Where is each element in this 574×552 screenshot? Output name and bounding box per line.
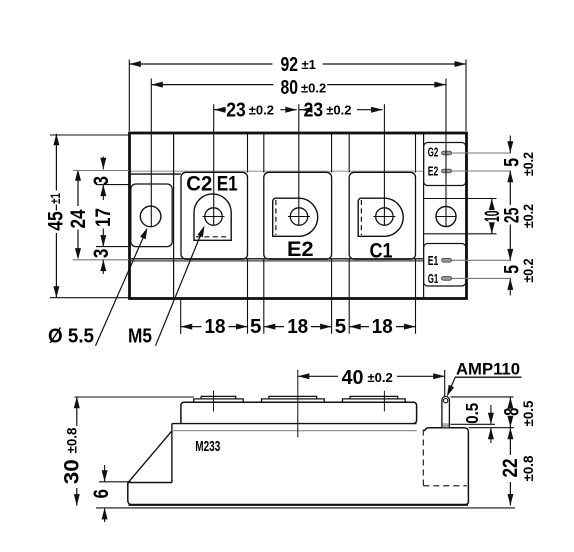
section E2 rounded block bbox=[264, 172, 332, 259]
extension 10 top bbox=[467, 198, 497, 200]
dim 18 (2) bbox=[264, 326, 284, 328]
terminal tab E2 (D-shape) bbox=[273, 198, 318, 236]
hidden cavity dashed bbox=[422, 430, 424, 486]
top view: module body outline bbox=[130, 133, 467, 299]
top view: internal upper edge line bbox=[131, 170, 424, 172]
svg-text:G2: G2 bbox=[428, 145, 439, 159]
dim 17 bbox=[102, 229, 104, 247]
svg-text:E1: E1 bbox=[217, 173, 238, 196]
svg-text:45: 45 bbox=[45, 211, 68, 231]
screw tick bbox=[203, 216, 225, 218]
AMP110 pin bbox=[443, 423, 450, 427]
terminal screw C1 bbox=[376, 208, 393, 225]
extension pocket top bbox=[96, 184, 130, 186]
side view: chamfer inner edge bbox=[171, 424, 173, 483]
dim 18 (3) bbox=[349, 326, 369, 328]
dim 3 top bbox=[102, 157, 104, 170]
dim 45 +-1 bbox=[55, 134, 57, 191]
svg-text:M233: M233 bbox=[195, 439, 220, 455]
dim 40 +-0.2 bbox=[298, 375, 338, 377]
dim 5 +-0.2 upper right bbox=[509, 136, 511, 153]
side view: terminal bump 1 bbox=[194, 399, 244, 402]
extension C1 centerline bbox=[383, 104, 385, 225]
svg-text:18: 18 bbox=[372, 315, 393, 338]
svg-text:80: 80 bbox=[281, 76, 299, 99]
svg-text:23: 23 bbox=[226, 98, 246, 121]
svg-text:40: 40 bbox=[342, 366, 364, 389]
AMP110 underline bbox=[455, 376, 522, 378]
terminal tab C1 (D-shape) bbox=[358, 198, 403, 236]
svg-text:±0.2: ±0.2 bbox=[520, 258, 536, 282]
dim 92 +-1 bbox=[129, 63, 272, 65]
centerline bump3 bbox=[383, 391, 385, 412]
dim 18 (1) bbox=[181, 326, 202, 328]
leader diameter 5.5 bbox=[96, 234, 146, 346]
terminal screw C2/E1 bbox=[205, 208, 222, 225]
extension 24 top bbox=[73, 170, 129, 172]
side view: cap top bbox=[181, 402, 417, 423]
svg-text:G1: G1 bbox=[428, 272, 439, 286]
svg-text:E2: E2 bbox=[428, 165, 439, 179]
screw tick bbox=[288, 216, 310, 218]
wire bbox=[263, 134, 265, 173]
svg-text:Ø 5.5: Ø 5.5 bbox=[48, 325, 94, 348]
side view: baseplate step bbox=[128, 482, 172, 484]
extension 0.5 bbox=[451, 423, 496, 425]
screw tick bbox=[373, 216, 395, 218]
side view: baseplate bottom extension line bbox=[96, 507, 515, 509]
extension 6 top bbox=[99, 481, 131, 483]
wire bbox=[415, 259, 417, 298]
extension E2 centerline bbox=[298, 104, 300, 225]
terminal tab C2/E1 (dome) bbox=[194, 194, 231, 240]
signal pin leader E2 bbox=[452, 170, 511, 172]
terminal screw E2 bbox=[290, 208, 307, 225]
side view: terminal bump 2 bbox=[262, 399, 325, 402]
svg-text:±0.5: ±0.5 bbox=[520, 400, 536, 426]
top view: left cap divider bbox=[173, 134, 175, 298]
extension bottom row bbox=[180, 300, 182, 334]
signal pin leader G1 bbox=[452, 277, 511, 279]
svg-text:±1: ±1 bbox=[47, 193, 63, 204]
signal pin G1 bbox=[442, 277, 452, 281]
wire bbox=[247, 259, 249, 298]
signal pin E2 bbox=[442, 169, 452, 173]
wire bbox=[247, 134, 249, 173]
dim 22 +-0.8 bbox=[509, 428, 511, 455]
top view: internal lower edge line bbox=[131, 258, 424, 260]
svg-text:±0.8: ±0.8 bbox=[64, 427, 80, 453]
extension 24 bottom bbox=[73, 259, 129, 261]
side view: parting line bbox=[172, 423, 417, 425]
hidden edge dashed C2/E1 tab bbox=[196, 236, 229, 238]
right cap lower pocket (E1/G1) bbox=[424, 244, 466, 287]
svg-text:23: 23 bbox=[304, 98, 324, 121]
dim 6 bbox=[104, 465, 106, 482]
extension 92 left bbox=[128, 60, 130, 132]
centerline bump2 / extension 40 left bbox=[297, 370, 299, 438]
extension 30 top / bump top line bbox=[75, 396, 195, 398]
wire bbox=[415, 134, 417, 173]
side view: terminal bump 3 bbox=[343, 399, 406, 402]
signal pin E1 bbox=[442, 259, 452, 263]
right cap hole upper line bbox=[424, 198, 466, 200]
signal pin G2 bbox=[442, 151, 452, 155]
svg-text:C2: C2 bbox=[186, 173, 212, 196]
svg-text:C1: C1 bbox=[370, 240, 393, 263]
side view: left edge bbox=[128, 483, 132, 505]
leader AMP110 bbox=[450, 377, 456, 390]
dim 24 bbox=[77, 172, 79, 206]
svg-text:22: 22 bbox=[499, 459, 522, 478]
svg-text:±0.2: ±0.2 bbox=[520, 204, 536, 228]
svg-text:3: 3 bbox=[90, 249, 113, 259]
signal pin leader G2 bbox=[452, 152, 511, 154]
svg-text:92: 92 bbox=[281, 53, 299, 76]
wire bbox=[331, 259, 333, 298]
svg-text:18: 18 bbox=[205, 315, 226, 338]
section C1 rounded block bbox=[349, 172, 415, 259]
wire bbox=[263, 259, 265, 298]
svg-text:±1: ±1 bbox=[302, 57, 316, 72]
dim 10 bbox=[491, 199, 493, 210]
svg-text:M5: M5 bbox=[128, 325, 152, 348]
svg-text:10: 10 bbox=[481, 210, 504, 222]
wire bbox=[348, 259, 350, 298]
dim 23 +-0.2 right bbox=[299, 109, 303, 111]
extension bottom row bbox=[348, 300, 350, 334]
svg-text:±0.8: ±0.8 bbox=[520, 455, 536, 481]
dim 5 +-0.2 lower right bbox=[507, 278, 513, 290]
svg-text:5: 5 bbox=[335, 315, 346, 338]
center tick right hole bbox=[436, 216, 457, 218]
side view: lower body top edge right bbox=[425, 428, 469, 505]
extension pocket bottom bbox=[96, 246, 130, 248]
extension C2E1 centerline bbox=[213, 104, 215, 225]
side view: bottom edge bbox=[129, 504, 469, 506]
signal pin leader E1 bbox=[452, 259, 511, 261]
svg-text:5: 5 bbox=[250, 315, 261, 338]
svg-text:17: 17 bbox=[92, 208, 115, 227]
extension 45 bottom bbox=[50, 297, 129, 299]
extension 80 left / hole centerline bbox=[150, 79, 152, 227]
svg-text:18: 18 bbox=[287, 315, 308, 338]
mounting hole left bbox=[140, 206, 161, 227]
svg-text:±0.2: ±0.2 bbox=[301, 81, 326, 96]
svg-text:24: 24 bbox=[67, 209, 90, 228]
svg-text:±0.2: ±0.2 bbox=[368, 370, 393, 385]
right cap upper pocket (G2/E2) bbox=[424, 143, 466, 186]
extension 80 right / hole centerline bbox=[445, 79, 447, 228]
svg-text:E2: E2 bbox=[287, 238, 314, 261]
top view: right cap divider bbox=[423, 134, 425, 298]
svg-text:±0.2: ±0.2 bbox=[249, 103, 274, 118]
extension bottom row bbox=[247, 300, 249, 334]
hidden edge dashed C1 tab bbox=[360, 200, 362, 235]
extension 92 right bbox=[465, 60, 467, 132]
AMP110 pin hole bbox=[443, 398, 447, 402]
dim 30 +-0.8 bbox=[76, 397, 78, 426]
wire bbox=[348, 134, 350, 173]
svg-text:±0.2: ±0.2 bbox=[326, 103, 351, 118]
svg-text:±0.2: ±0.2 bbox=[520, 152, 536, 176]
extension 40 right bbox=[444, 370, 446, 396]
extension bottom row bbox=[415, 300, 417, 334]
dim 25 +-0.2 bbox=[509, 171, 511, 205]
svg-text:30: 30 bbox=[61, 459, 84, 484]
dim 23 +-0.2 left bbox=[214, 109, 226, 111]
right cap hole lower line bbox=[424, 233, 466, 235]
dim 8 +-0.5 bbox=[509, 397, 511, 404]
extension ledge bbox=[468, 427, 514, 429]
wire bbox=[331, 134, 333, 173]
extension bottom row bbox=[263, 300, 265, 334]
svg-text:6: 6 bbox=[90, 489, 113, 499]
svg-text:AMP110: AMP110 bbox=[456, 361, 520, 379]
section C2/E1 rounded block bbox=[181, 172, 248, 259]
mounting hole right bbox=[436, 207, 456, 227]
leader M5 bbox=[156, 232, 203, 346]
extension 45 top bbox=[50, 134, 129, 136]
dim 0.5 bbox=[490, 405, 492, 424]
svg-text:E1: E1 bbox=[428, 254, 439, 268]
hidden edge dashed E2 tab bbox=[275, 200, 277, 235]
centerline bump1 bbox=[213, 391, 215, 412]
side view: chamfer slant bbox=[128, 431, 172, 482]
extension bottom row bbox=[331, 300, 333, 334]
extension 10 bottom bbox=[467, 233, 497, 235]
svg-text:0.5: 0.5 bbox=[462, 403, 482, 424]
dim 80 +-0.2 bbox=[151, 84, 273, 86]
left cap pocket bbox=[131, 184, 172, 247]
extension pin top bbox=[451, 396, 514, 398]
